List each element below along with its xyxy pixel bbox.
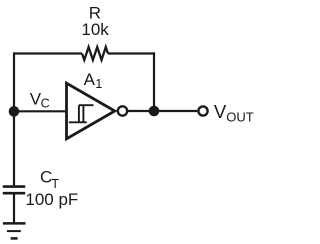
svg-text:1: 1 [95, 77, 102, 91]
label V_C [30, 89, 50, 110]
label 100 pF [25, 190, 78, 209]
node output junction [149, 106, 160, 117]
hysteresis symbol inside A1 [69, 105, 94, 122]
inverter output bubble [118, 106, 127, 115]
wire capacitor to ground [13, 194, 15, 223]
wire left vertical [13, 52, 15, 185]
svg-text:10k: 10k [81, 20, 109, 39]
svg-text:T: T [51, 177, 59, 191]
wire top-left segment [14, 52, 82, 54]
svg-text:C: C [41, 97, 50, 111]
label 10k [81, 20, 109, 39]
wire output [127, 110, 197, 112]
label V_OUT [214, 101, 254, 125]
label A_1 [84, 70, 103, 91]
svg-text:A: A [84, 70, 96, 89]
node input junction [9, 106, 20, 117]
op-amp A1 (Schmitt inverter triangle) [67, 83, 115, 139]
svg-text:V: V [214, 101, 227, 122]
wire feedback vertical [153, 52, 155, 111]
capacitor C_T [3, 187, 25, 194]
svg-text:OUT: OUT [226, 110, 254, 125]
label C_T [40, 168, 59, 191]
terminal V_OUT (open circle) [198, 106, 207, 115]
resistor R [82, 47, 108, 60]
wire top-right segment [108, 52, 155, 54]
wire input to inverter [14, 110, 65, 112]
ground [3, 223, 26, 238]
label R [89, 4, 101, 23]
svg-text:100 pF: 100 pF [25, 190, 78, 209]
